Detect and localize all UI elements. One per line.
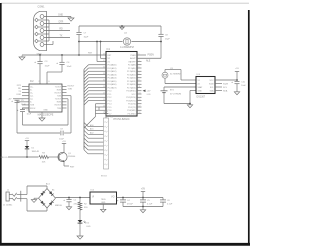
svg-text:0.1uF: 0.1uF [147,204,153,206]
svg-text:AD2: AD2 [90,132,94,135]
svg-text:C1-: C1- [30,92,33,94]
svg-text:17: 17 [139,105,141,107]
svg-text:P1.1: P1.1 [108,94,112,96]
svg-text:P1.5: P1.5 [108,107,112,109]
svg-text:5: 5 [139,66,140,68]
svg-text:+5V: +5V [62,141,66,143]
svg-text:GND: GND [147,94,152,96]
svg-text:VO: VO [111,196,115,198]
svg-text:19: 19 [139,112,141,114]
svg-text:33: 33 [103,73,105,75]
svg-text:C2-: C2- [30,99,33,101]
svg-text:13: 13 [139,92,141,94]
svg-text:P0.7(AD7): P0.7(AD7) [108,86,117,89]
svg-text:2N3904: 2N3904 [68,156,76,158]
svg-text:COM1: COM1 [38,5,46,8]
svg-text:R2OU: R2OU [30,108,36,110]
svg-text:P2.0(A8): P2.0(A8) [128,64,136,67]
svg-text:15pF: 15pF [165,39,170,41]
svg-text:R1OUT: R1OUT [55,92,62,94]
svg-text:7805: 7805 [101,199,107,201]
svg-text:11.0592MHZ: 11.0592MHZ [120,46,134,49]
svg-text:P0.0(AD0): P0.0(AD0) [108,64,117,67]
svg-text:ALE: ALE [146,60,151,63]
svg-text:DSR: DSR [17,94,22,96]
svg-text:10uF: 10uF [27,113,32,115]
svg-text:470uF: 470uF [127,204,134,206]
svg-text:DS1307: DS1307 [197,96,206,99]
svg-text:SCL: SCL [210,87,214,89]
svg-text:P2.1(A9): P2.1(A9) [128,67,136,70]
svg-text:29: 29 [103,86,105,88]
svg-text:P3.2(INT0): P3.2(INT0) [126,97,136,99]
svg-text:P0.4(AD4): P0.4(AD4) [108,77,117,80]
svg-text:PSEN: PSEN [130,55,136,57]
svg-text:+5V: +5V [235,68,239,70]
svg-text:X2: X2 [198,83,200,85]
svg-text:P1.4: P1.4 [108,104,112,106]
svg-text:27: 27 [103,92,105,94]
svg-text:P2.4(A12): P2.4(A12) [127,77,136,80]
svg-text:T1IN: T1IN [57,96,62,98]
svg-text:3V LITHIUM: 3V LITHIUM [170,94,181,96]
svg-text:GND: GND [58,14,63,16]
svg-text:GND: GND [43,110,48,112]
svg-text:10K: 10K [42,162,46,164]
svg-text:P1.2: P1.2 [108,97,112,99]
svg-text:10uF: 10uF [241,85,246,87]
svg-text:23: 23 [103,105,105,107]
svg-text:25: 25 [103,99,105,101]
svg-text:1: 1 [139,53,140,55]
svg-text:15: 15 [139,99,141,101]
svg-text:T2IN: T2IN [57,108,62,110]
svg-text:VCC: VCC [132,94,137,96]
svg-text:P3.7(RD): P3.7(RD) [128,113,136,115]
svg-text:P3.6(WR): P3.6(WR) [127,110,136,112]
svg-text:R1IN: R1IN [57,89,62,91]
svg-text:P1.6: P1.6 [108,110,112,112]
svg-text:VCC: VCC [210,80,215,82]
svg-text:AD1: AD1 [90,128,94,131]
svg-text:J1 12VAC: J1 12VAC [3,204,13,207]
svg-text:P3.3(INT1): P3.3(INT1) [126,100,136,102]
svg-text:10uF: 10uF [45,65,51,67]
svg-text:11: 11 [139,86,141,88]
svg-text:SDA: SDA [223,89,228,92]
svg-text:+5V: +5V [25,138,29,140]
svg-text:MB10S: MB10S [55,205,62,207]
svg-text:31: 31 [103,79,105,81]
svg-text:P2.2(A10): P2.2(A10) [127,70,136,73]
svg-text:2: 2 [39,81,40,83]
svg-text:PSEN: PSEN [148,55,155,57]
svg-text:9X 1K: 9X 1K [101,176,107,178]
svg-text:P0.5(AD5): P0.5(AD5) [108,80,117,83]
svg-text:X1: X1 [108,61,110,63]
svg-text:3: 3 [139,60,140,62]
svg-text:MAX232ECPE: MAX232ECPE [38,114,54,117]
svg-text:P0.1(AD1): P0.1(AD1) [108,67,117,70]
svg-text:R2OUT: R2OUT [68,85,76,87]
svg-text:T2OUT: T2OUT [55,99,62,101]
svg-text:X1: X1 [198,80,200,82]
svg-text:87C52-BASIC: 87C52-BASIC [113,117,129,121]
svg-text:R2OUT: R2OUT [55,105,62,107]
svg-text:ALE/P: ALE/P [130,57,136,60]
svg-text:DTR: DTR [17,85,22,87]
svg-text:32.768KHZ: 32.768KHZ [170,74,181,76]
svg-text:15pF: 15pF [84,37,89,39]
svg-text:P0.6(AD6): P0.6(AD6) [108,83,117,86]
svg-text:X2: X2 [108,58,110,60]
svg-text:TX: TX [60,35,63,37]
svg-text:DTR: DTR [59,21,64,23]
svg-text:10uF: 10uF [21,104,26,106]
svg-text:0.1uF: 0.1uF [167,204,173,206]
svg-text:VBAT: VBAT [198,86,204,89]
svg-text:T2IN: T2IN [68,88,73,90]
svg-text:P3.4(T0): P3.4(T0) [128,104,136,106]
svg-text:P1.0: P1.0 [108,91,112,93]
svg-text:P2.7(A15): P2.7(A15) [127,86,136,89]
svg-text:P0.3(AD3): P0.3(AD3) [108,73,117,76]
svg-text:6: 6 [49,81,50,83]
svg-text:+5V: +5V [104,111,108,113]
svg-text:VI: VI [92,196,95,198]
svg-text:7: 7 [139,73,140,75]
svg-text:35: 35 [103,66,105,68]
svg-text:GND: GND [101,202,106,204]
svg-text:GND: GND [198,90,203,92]
svg-text:AD0: AD0 [90,124,94,127]
svg-text:9: 9 [139,79,140,81]
svg-text:P2.3(A11): P2.3(A11) [127,73,136,76]
svg-text:P2.6(A14): P2.6(A14) [127,83,136,86]
svg-text:10uF: 10uF [67,66,73,68]
svg-text:LED: LED [87,226,92,228]
svg-text:P2.5(A13): P2.5(A13) [127,80,136,83]
svg-text:RST: RST [88,52,93,54]
svg-text:P3.0(RXD): P3.0(RXD) [126,91,136,93]
svg-text:1N4148: 1N4148 [32,151,40,153]
svg-text:EA/VPP: EA/VPP [129,60,137,63]
svg-text:P0.2(AD2): P0.2(AD2) [108,70,117,73]
svg-text:T1OUT: T1OUT [55,86,62,88]
svg-text:RD: RD [59,28,63,30]
svg-text:SQW: SQW [223,83,228,85]
svg-text:RST: RST [70,166,75,168]
svg-text:WDOG: WDOG [0,157,7,159]
svg-text:37: 37 [103,60,105,62]
svg-text:+5V: +5V [141,189,146,191]
svg-text:R2IN: R2IN [57,102,62,104]
svg-text:+5V: +5V [147,91,151,93]
svg-text:T2IN: T2IN [30,105,35,107]
svg-text:SQW: SQW [209,83,214,85]
svg-text:RD: RD [18,88,22,90]
svg-text:P1.3: P1.3 [108,100,112,102]
svg-text:39: 39 [103,53,105,55]
svg-text:P3.5(T1): P3.5(T1) [128,107,136,109]
